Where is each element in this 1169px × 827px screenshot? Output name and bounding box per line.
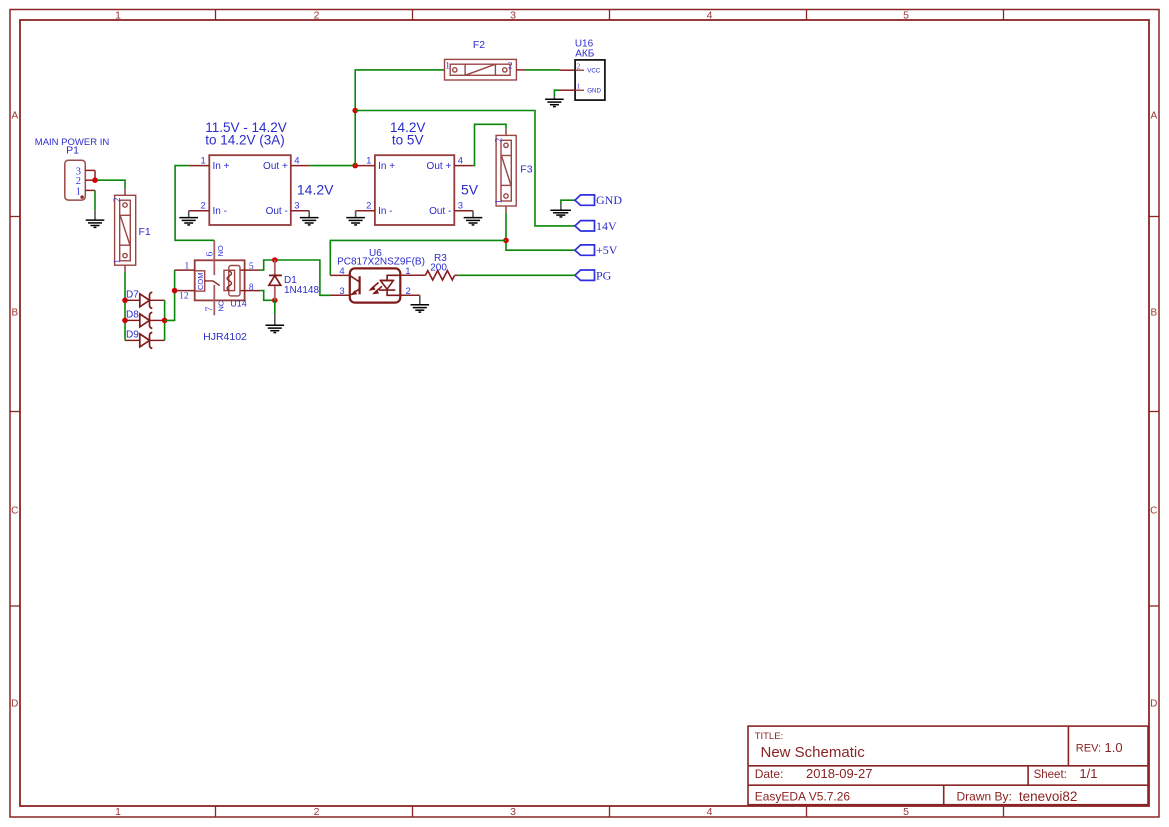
svg-text:4: 4 [294, 156, 299, 167]
svg-text:In +: In + [213, 161, 230, 172]
svg-text:1: 1 [115, 10, 121, 22]
ground P1 [86, 210, 105, 227]
svg-text:tenevoi82: tenevoi82 [1019, 789, 1078, 804]
junction 14V tap [352, 108, 358, 114]
svg-text:1: 1 [366, 156, 371, 167]
wire U16 GND to ground [554, 90, 560, 96]
svg-text:2: 2 [314, 806, 320, 818]
wire node riser to F2 [355, 70, 444, 166]
svg-text:to 5V: to 5V [392, 133, 424, 148]
svg-text:1/1: 1/1 [1079, 766, 1097, 781]
svg-text:7: 7 [205, 307, 215, 312]
svg-text:1N4148: 1N4148 [284, 285, 319, 296]
svg-text:to 14.2V (3A): to 14.2V (3A) [205, 133, 285, 148]
svg-text:Out -: Out - [429, 206, 451, 217]
wire D8 junction to relay pins 1,12 [165, 270, 175, 320]
net flag 14V [575, 219, 617, 233]
svg-text:D7: D7 [126, 290, 139, 301]
wire relay pin5 to D1 top [260, 260, 275, 270]
ground converter1 out- [300, 211, 319, 225]
ground converter1 in- [179, 211, 198, 225]
svg-text:12: 12 [179, 292, 189, 302]
svg-text:АКБ: АКБ [575, 48, 594, 59]
svg-text:+5V: +5V [596, 243, 618, 257]
svg-text:3: 3 [510, 806, 516, 818]
junction D8 left [122, 318, 128, 324]
svg-text:2: 2 [366, 201, 371, 212]
wire P1 pin2 to F1 [95, 180, 125, 189]
dc-dc converter 1 [189, 120, 334, 225]
optocoupler U6 [330, 248, 425, 302]
wire F3 to +5V net [506, 213, 575, 250]
wire converter2 out+ to F3 [473, 124, 506, 165]
svg-text:F1: F1 [139, 226, 151, 238]
svg-text:1: 1 [115, 806, 121, 818]
svg-text:Out +: Out + [427, 161, 452, 172]
wire +5V tap to U6 pin4 [330, 240, 506, 275]
svg-text:5V: 5V [461, 181, 479, 197]
net flag +5V [575, 243, 618, 257]
svg-text:VCC: VCC [587, 68, 601, 75]
diode D8 [125, 310, 165, 329]
svg-text:1.0: 1.0 [1105, 740, 1123, 755]
svg-text:F2: F2 [473, 39, 485, 51]
svg-text:GND: GND [596, 193, 622, 207]
svg-text:PG: PG [596, 268, 612, 282]
svg-text:1: 1 [76, 187, 81, 198]
net flag GND [550, 193, 622, 217]
svg-text:NC: NC [217, 300, 226, 311]
svg-text:4: 4 [458, 156, 463, 167]
svg-text:Date:: Date: [755, 767, 784, 781]
svg-text:PC817X2NSZ9F(B): PC817X2NSZ9F(B) [337, 257, 425, 268]
svg-text:Out +: Out + [263, 161, 288, 172]
junction D1 bottom [272, 298, 278, 304]
svg-text:A: A [11, 111, 18, 122]
ground U6 pin2 [411, 295, 430, 312]
svg-text:4: 4 [707, 806, 713, 818]
svg-text:B: B [1150, 308, 1157, 319]
svg-text:B: B [11, 308, 18, 319]
wire D1 bottom to ground [274, 300, 276, 314]
svg-text:5: 5 [903, 806, 909, 818]
svg-text:New Schematic: New Schematic [761, 744, 866, 761]
wire R3 to PG flag [458, 274, 575, 276]
svg-text:D: D [11, 699, 18, 710]
svg-text:4: 4 [707, 10, 713, 22]
svg-text:2: 2 [406, 286, 411, 297]
svg-text:In -: In - [378, 206, 392, 217]
svg-text:REV:: REV: [1076, 743, 1101, 755]
fuse F3 [494, 129, 532, 213]
svg-text:COM: COM [196, 273, 205, 291]
relay U14 [175, 240, 261, 343]
svg-text:U14: U14 [230, 298, 247, 308]
svg-text:2: 2 [314, 10, 320, 22]
title block [748, 726, 1148, 805]
svg-text:1: 1 [494, 199, 504, 204]
ground D1 [266, 315, 285, 333]
dc-dc converter 2 [355, 120, 479, 225]
junction +5V tap [503, 238, 509, 244]
svg-text:1: 1 [113, 259, 123, 264]
svg-text:1: 1 [185, 262, 190, 272]
wire converter1 in+ to relay NO [175, 166, 214, 241]
svg-text:HJR4102: HJR4102 [203, 331, 247, 343]
svg-text:C: C [1150, 506, 1157, 517]
svg-text:2: 2 [577, 63, 581, 71]
junction converter2 in+ [352, 163, 358, 169]
svg-text:2: 2 [508, 61, 513, 71]
svg-text:3: 3 [510, 10, 516, 22]
fuse F1 [113, 189, 151, 272]
wire D1 top to U6 pin3 [275, 260, 331, 295]
ground U16 [545, 97, 564, 107]
connector P1 MAIN POWER IN [35, 137, 110, 200]
wire F2 to U16 VCC [516, 69, 575, 71]
fuse F2 [445, 39, 517, 80]
diode D9 [125, 330, 165, 349]
junction D7 left [122, 298, 128, 304]
net flag PG [575, 268, 612, 282]
svg-text:1: 1 [577, 83, 581, 91]
junction relay pin12 [172, 288, 178, 294]
svg-text:1: 1 [201, 156, 206, 167]
svg-text:2: 2 [76, 176, 81, 187]
svg-text:D: D [1150, 699, 1157, 710]
junction P1 pin2 [92, 177, 98, 183]
svg-text:1: 1 [445, 61, 450, 71]
svg-text:5: 5 [249, 262, 254, 272]
wire 14V tap to flag [355, 111, 575, 226]
svg-text:3: 3 [339, 286, 344, 297]
svg-text:8: 8 [249, 283, 254, 293]
svg-text:In +: In + [378, 161, 395, 172]
svg-text:3: 3 [294, 201, 299, 212]
svg-text:5: 5 [903, 10, 909, 22]
svg-text:EasyEDA V5.7.26: EasyEDA V5.7.26 [755, 790, 851, 804]
svg-text:Out -: Out - [266, 206, 288, 217]
title block text [755, 731, 1123, 804]
svg-text:Drawn By:: Drawn By: [957, 790, 1012, 804]
svg-text:4: 4 [339, 266, 344, 277]
diode D7 [125, 290, 165, 309]
svg-text:GND: GND [587, 88, 601, 95]
svg-text:14.2V: 14.2V [297, 181, 334, 197]
wire diode cathodes joined [164, 300, 166, 340]
svg-text:2: 2 [201, 201, 206, 212]
svg-text:2018-09-27: 2018-09-27 [806, 766, 873, 781]
svg-text:D9: D9 [126, 330, 139, 341]
svg-text:14V: 14V [596, 219, 617, 233]
svg-text:P1: P1 [66, 145, 79, 157]
svg-text:TITLE:: TITLE: [755, 731, 784, 742]
diode D1 [269, 260, 320, 300]
svg-text:D8: D8 [126, 310, 139, 321]
svg-text:C: C [11, 506, 18, 517]
wire F1 to diode stack [124, 272, 126, 340]
ground converter2 in- [346, 211, 365, 225]
wire converter1 out+ to node [309, 165, 355, 167]
svg-text:2: 2 [494, 137, 504, 142]
junction D8 right [162, 318, 168, 324]
ground converter2 out- [464, 211, 483, 225]
svg-text:2: 2 [113, 197, 123, 202]
wire relay pin8 to D1 bottom [260, 291, 275, 301]
svg-text:3: 3 [458, 201, 463, 212]
battery U16 [560, 38, 605, 100]
svg-text:200: 200 [430, 262, 447, 273]
svg-text:NO: NO [216, 245, 225, 256]
resistor R3 [425, 253, 458, 280]
svg-text:1: 1 [405, 266, 410, 277]
wire P1 pin1 to ground [94, 190, 96, 210]
junction D1 top [272, 257, 278, 263]
svg-text:In -: In - [213, 206, 227, 217]
svg-text:Sheet:: Sheet: [1034, 769, 1067, 781]
svg-text:A: A [1150, 111, 1157, 122]
svg-text:6: 6 [206, 252, 216, 257]
svg-text:F3: F3 [520, 164, 532, 176]
